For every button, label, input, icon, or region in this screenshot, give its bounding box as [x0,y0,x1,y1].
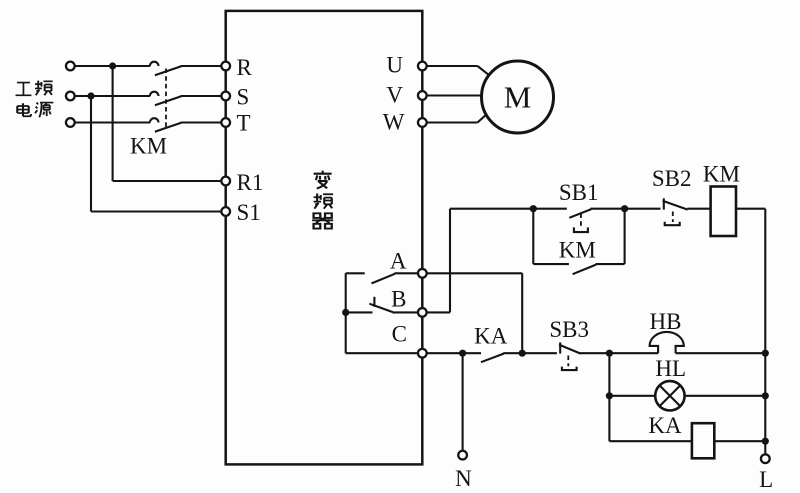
svg-text:A: A [390,249,407,274]
svg-text:SB1: SB1 [559,180,599,205]
svg-text:SB2: SB2 [652,166,692,191]
svg-text:V: V [386,83,403,108]
svg-text:KM: KM [559,238,596,263]
svg-text:KM: KM [703,161,740,186]
svg-text:U: U [386,53,403,78]
svg-text:SB3: SB3 [549,317,589,342]
svg-text:HB: HB [650,309,682,334]
svg-text:S1: S1 [237,200,261,225]
svg-text:KM: KM [130,134,167,159]
svg-text:S: S [237,85,250,110]
svg-text:KA: KA [474,323,508,348]
svg-text:T: T [237,110,251,135]
svg-text:R1: R1 [237,170,264,195]
svg-text:KA: KA [648,413,682,438]
svg-text:W: W [383,110,405,135]
svg-text:N: N [455,466,472,491]
svg-text:HL: HL [655,356,686,381]
svg-text:C: C [392,322,407,347]
svg-text:R: R [237,55,253,80]
svg-text:L: L [759,467,773,492]
svg-text:M: M [504,80,532,115]
svg-text:B: B [391,287,406,312]
